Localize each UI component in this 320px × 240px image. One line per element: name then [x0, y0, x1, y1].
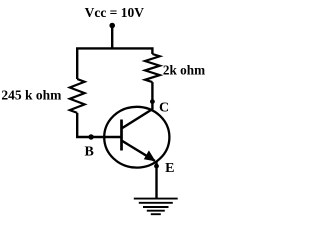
wire emitter lead [155, 161, 157, 198]
svg-text:C: C [159, 101, 169, 116]
junction dot node B [88, 134, 93, 139]
wire top rail [77, 48, 152, 79]
transistor Q1 collector arm [122, 109, 153, 129]
junction dot node C [150, 99, 155, 104]
transistor Q1 emitter arm [122, 141, 155, 161]
svg-text:B: B [85, 145, 94, 160]
svg-text:Vcc = 10V: Vcc = 10V [85, 5, 145, 20]
transistor Q1 emitter arrowhead [145, 151, 155, 160]
svg-text:245 k ohm: 245 k ohm [1, 87, 62, 102]
junction dot node E [154, 164, 159, 169]
svg-text:2k ohm: 2k ohm [163, 63, 205, 78]
resistor R2 2k zigzag [145, 54, 160, 82]
transistor Q1 body circle [104, 107, 169, 168]
wire collector lead [151, 82, 153, 110]
ground symbol [134, 199, 178, 215]
wire left rail lower + base wire [77, 113, 121, 137]
transistor Q1 base bar [120, 120, 123, 151]
resistor R1 245k zigzag [70, 79, 85, 113]
node Vcc supply stub [111, 26, 113, 49]
svg-text:E: E [165, 161, 174, 176]
junction dot Vcc node [109, 23, 115, 29]
